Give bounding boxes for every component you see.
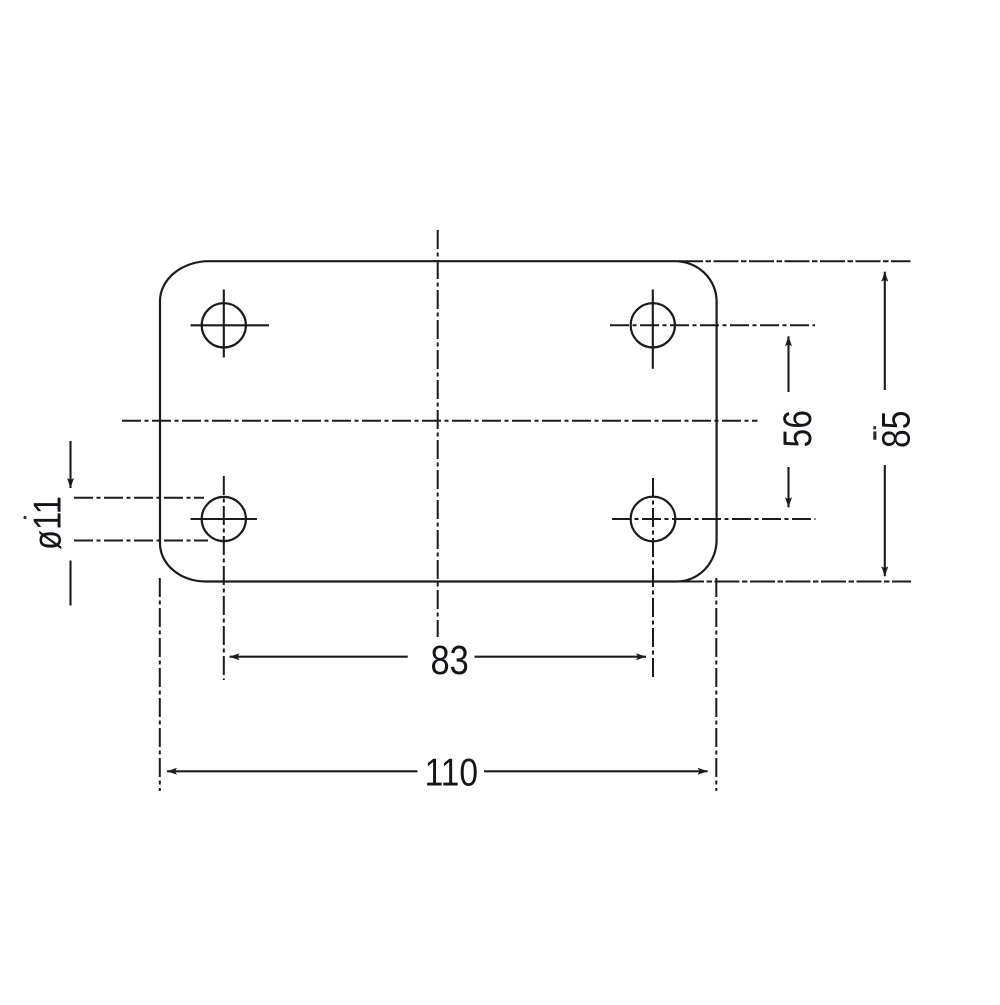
svg-text:83: 83 xyxy=(430,638,468,683)
svg-text:110: 110 xyxy=(425,750,478,794)
svg-text:ø11: ø11 xyxy=(25,496,69,550)
svg-text:85: 85 xyxy=(874,411,918,448)
svg-text:56: 56 xyxy=(775,410,819,447)
